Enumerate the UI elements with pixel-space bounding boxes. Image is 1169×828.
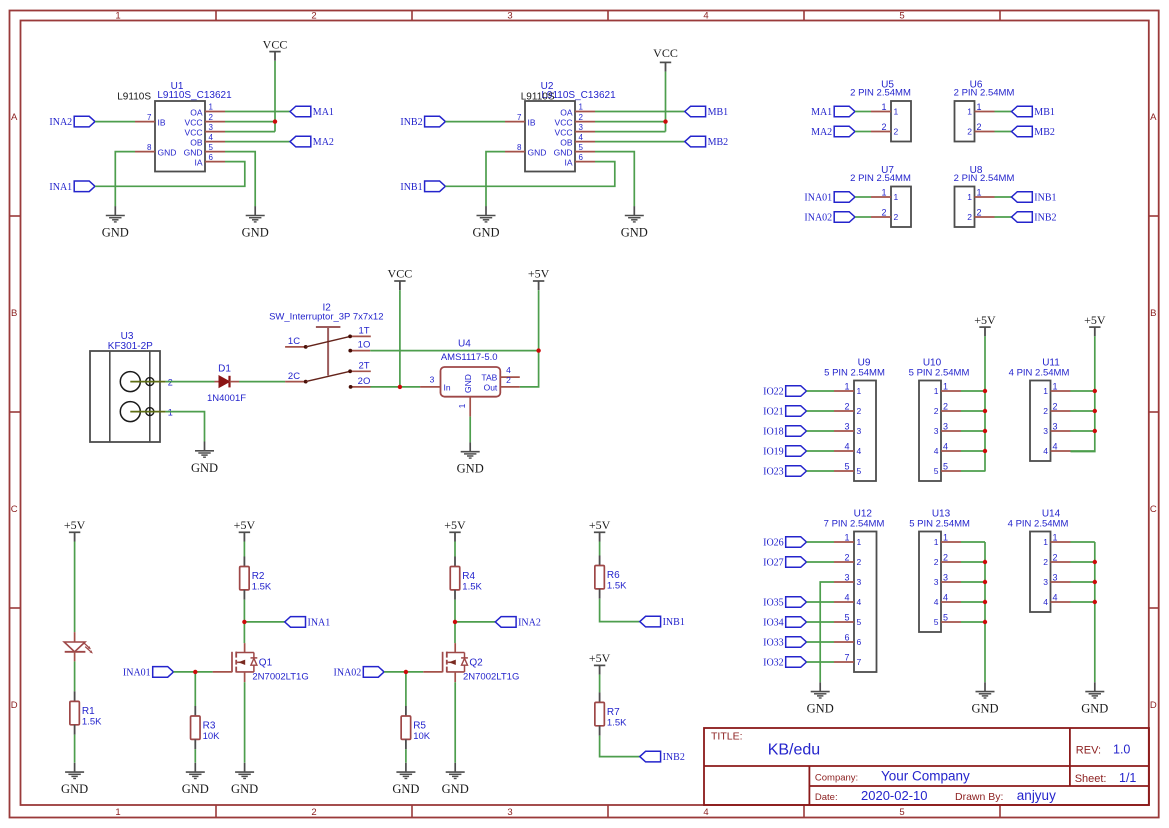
svg-text:2020-02-10: 2020-02-10 — [861, 788, 928, 803]
U12 pin 5 — [834, 613, 862, 628]
wire U2 pin5 to ground — [595, 152, 634, 207]
svg-text:GND: GND — [61, 782, 88, 796]
svg-text:GND: GND — [457, 462, 484, 476]
svg-text:2: 2 — [977, 208, 982, 218]
svg-text:MB1: MB1 — [708, 107, 729, 118]
regulator U4 labels — [441, 339, 498, 364]
svg-text:INA01: INA01 — [123, 667, 151, 678]
svg-text:5: 5 — [934, 617, 939, 627]
svg-text:OA: OA — [190, 108, 203, 118]
wire R2 to Q1 drain — [243, 600, 245, 643]
svg-text:2: 2 — [844, 553, 849, 563]
svg-text:anjyuy: anjyuy — [1017, 788, 1056, 803]
svg-text:Drawn By:: Drawn By: — [955, 791, 1003, 803]
wire U1 pin4 OB to MA2 — [225, 141, 290, 143]
svg-text:7: 7 — [844, 653, 849, 663]
svg-text:8: 8 — [147, 143, 152, 152]
power flag +5V middle — [528, 267, 550, 291]
svg-text:VCC: VCC — [263, 37, 288, 51]
svg-text:1: 1 — [209, 103, 214, 112]
svg-text:3: 3 — [507, 807, 512, 818]
junction U14 bus — [1093, 560, 1097, 564]
wire IO27 to U12 — [807, 561, 835, 563]
svg-text:INB2: INB2 — [663, 752, 685, 763]
svg-text:3: 3 — [579, 123, 584, 132]
U9 pin 4 — [834, 442, 862, 457]
junction VCC/2O — [398, 385, 402, 389]
net flag INA2 — [49, 116, 95, 128]
U8 pin 2 — [967, 208, 994, 223]
net flag INA01 — [123, 667, 174, 679]
junction VCC/U1 — [273, 119, 277, 123]
svg-text:VCC: VCC — [388, 267, 413, 281]
frame column numbers — [115, 11, 904, 819]
net flag MB1 — [685, 106, 728, 118]
net flag IO18 — [763, 426, 806, 438]
wire 2O to U4 In — [371, 386, 421, 388]
switch I2 contact 1T — [348, 325, 371, 338]
svg-text:2: 2 — [943, 402, 948, 412]
wire U8 to INB1 — [995, 196, 1012, 198]
svg-text:MB2: MB2 — [1034, 127, 1055, 138]
net flag INA2 — [495, 617, 541, 629]
wire U1 pin2 to VCC — [225, 121, 275, 123]
U1 pin 7 IB — [135, 113, 166, 128]
svg-text:1: 1 — [857, 537, 862, 547]
svg-text:3: 3 — [934, 577, 939, 587]
svg-text:2 PIN 2.54MM: 2 PIN 2.54MM — [954, 87, 1015, 98]
terminal block U3 labels — [108, 331, 153, 352]
svg-text:In: In — [444, 382, 451, 392]
svg-text:1: 1 — [881, 188, 886, 198]
svg-text:2: 2 — [967, 212, 972, 222]
connector U9 body — [854, 381, 876, 482]
svg-text:Your Company: Your Company — [881, 768, 970, 783]
wire U10 pin to +5V — [961, 430, 985, 432]
svg-text:1: 1 — [934, 386, 939, 396]
U2 pin 4 OB — [560, 133, 595, 148]
svg-text:3: 3 — [1043, 577, 1048, 587]
svg-text:10K: 10K — [203, 731, 221, 742]
resistor R3 — [191, 706, 221, 749]
wire +5V to R6 — [599, 542, 601, 556]
svg-text:3: 3 — [1043, 426, 1048, 436]
svg-text:GND: GND — [971, 702, 998, 716]
junction U13 bus — [983, 600, 987, 604]
svg-text:GND: GND — [807, 702, 834, 716]
svg-text:3: 3 — [943, 573, 948, 583]
wire U3 pin2 to D1 — [166, 381, 215, 383]
power flag +5V LED column — [64, 518, 86, 542]
svg-text:B: B — [11, 308, 17, 319]
wire U13 ground bus — [984, 542, 986, 682]
U12 pin 6 — [834, 633, 862, 648]
svg-text:1: 1 — [1043, 386, 1048, 396]
net flag IO33 — [763, 637, 806, 649]
svg-text:5: 5 — [579, 143, 584, 152]
svg-text:U4: U4 — [458, 339, 471, 350]
connector U11 body — [1030, 381, 1051, 462]
svg-text:R1: R1 — [82, 706, 95, 717]
svg-text:2 PIN 2.54MM: 2 PIN 2.54MM — [954, 173, 1015, 184]
wire U8 to INB2 — [995, 216, 1012, 218]
svg-text:3: 3 — [857, 577, 862, 587]
svg-text:5: 5 — [943, 613, 948, 623]
svg-text:IO23: IO23 — [763, 467, 784, 478]
switch I2 pole 2 lever — [306, 371, 350, 381]
U1 pin 5 GND — [184, 143, 225, 158]
svg-text:OB: OB — [560, 138, 573, 148]
resistor R2 — [240, 557, 272, 600]
svg-text:3: 3 — [1053, 573, 1058, 583]
svg-text:1.5K: 1.5K — [252, 582, 272, 593]
connector U10 body — [919, 381, 941, 482]
net flag IO21 — [763, 406, 806, 418]
svg-text:2N7002LT1G: 2N7002LT1G — [463, 671, 519, 682]
svg-text:GND: GND — [158, 148, 177, 158]
svg-text:4: 4 — [934, 597, 939, 607]
U9 pin 5 — [834, 462, 862, 477]
wire to INA1 — [244, 621, 284, 623]
wire U2 pin3 to VCC — [595, 131, 666, 133]
U2 pin 1 OA — [560, 103, 595, 118]
switch I2 actuator bar — [316, 327, 341, 375]
svg-text:2: 2 — [857, 557, 862, 567]
U12 pin 4 — [834, 593, 862, 608]
svg-text:1: 1 — [967, 107, 972, 117]
svg-text:2: 2 — [894, 127, 899, 137]
net flag IO32 — [763, 657, 806, 669]
junction INA02 — [404, 670, 408, 674]
junction U10/+5V — [983, 429, 987, 433]
svg-text:4: 4 — [857, 446, 862, 456]
svg-text:GND: GND — [191, 461, 218, 475]
U11 pin 1 — [1043, 382, 1070, 397]
svg-text:8: 8 — [517, 143, 522, 152]
svg-text:4: 4 — [844, 442, 849, 452]
net flag MA1 — [811, 106, 855, 118]
svg-text:2: 2 — [934, 557, 939, 567]
svg-text:5: 5 — [857, 466, 862, 476]
svg-text:1: 1 — [1043, 537, 1048, 547]
svg-text:4: 4 — [934, 446, 939, 456]
svg-text:OB: OB — [190, 138, 203, 148]
svg-text:INA1: INA1 — [49, 182, 72, 193]
wire U14 pin to ground bus — [1071, 561, 1095, 563]
U6 pin 1 — [967, 102, 994, 117]
svg-text:2: 2 — [934, 406, 939, 416]
svg-text:L9110S_C13621: L9110S_C13621 — [157, 90, 232, 101]
resistor R7 — [595, 692, 627, 735]
svg-text:Q1: Q1 — [259, 657, 273, 668]
svg-text:6: 6 — [209, 153, 214, 162]
svg-text:INA1: INA1 — [308, 617, 331, 628]
svg-text:1: 1 — [977, 102, 982, 112]
svg-text:1.5K: 1.5K — [607, 581, 627, 592]
U6 pin 2 — [967, 122, 994, 137]
svg-text:R5: R5 — [413, 721, 426, 732]
svg-text:1: 1 — [115, 807, 120, 818]
svg-text:1O: 1O — [358, 340, 371, 351]
sheet text — [1075, 771, 1137, 785]
power flag VCC above U2 — [653, 46, 678, 72]
svg-text:VCC: VCC — [555, 128, 573, 138]
svg-text:4: 4 — [703, 807, 708, 818]
svg-text:L9110S: L9110S — [117, 92, 151, 103]
svg-text:A: A — [11, 112, 18, 123]
LED diode — [64, 632, 93, 661]
power flag +5V R7 — [589, 651, 611, 675]
wire Q1 source to ground — [244, 682, 246, 763]
junction U14 bus — [1093, 600, 1097, 604]
svg-text:1: 1 — [579, 103, 584, 112]
svg-text:2: 2 — [209, 113, 214, 122]
wire R5 to ground — [405, 749, 407, 763]
svg-text:TAB: TAB — [481, 373, 497, 383]
svg-text:IO21: IO21 — [763, 407, 784, 418]
svg-text:AMS1117-5.0: AMS1117-5.0 — [441, 352, 498, 363]
svg-text:1: 1 — [857, 386, 862, 396]
wire 1O to +5V — [370, 350, 538, 352]
wire VCC to 2O net — [399, 290, 401, 387]
svg-text:GND: GND — [1081, 702, 1108, 716]
diode D1 1N4001F — [207, 363, 246, 404]
connector U14 labels — [1008, 509, 1069, 530]
svg-text:TITLE:: TITLE: — [711, 731, 743, 743]
svg-text:GND: GND — [102, 226, 129, 240]
svg-text:2: 2 — [311, 11, 316, 22]
wire INA01 to R3 — [194, 672, 196, 706]
svg-text:5: 5 — [899, 11, 904, 22]
U12 pin 1 — [834, 533, 862, 548]
svg-text:D1: D1 — [218, 363, 231, 374]
svg-text:INB2: INB2 — [1034, 213, 1056, 224]
svg-text:MA1: MA1 — [313, 107, 334, 118]
junction U11/+5V — [1093, 389, 1097, 393]
svg-text:GND: GND — [442, 782, 469, 796]
wire U11 pin to +5V — [1071, 430, 1095, 432]
wire U1 pin8 to ground — [115, 152, 135, 207]
svg-text:Q2: Q2 — [469, 657, 483, 668]
svg-text:5: 5 — [934, 466, 939, 476]
wire IO35 to U12 — [807, 601, 835, 603]
net flag IO26 — [763, 537, 806, 549]
svg-text:5: 5 — [857, 617, 862, 627]
U14 pin 2 — [1043, 553, 1070, 568]
U3 pin 2 — [130, 377, 173, 387]
U3 pin 1 — [130, 407, 173, 417]
svg-text:1: 1 — [457, 403, 467, 408]
svg-text:INA02: INA02 — [334, 667, 362, 678]
U4 pin 3 In — [420, 375, 451, 393]
svg-text:4 PIN 2.54MM: 4 PIN 2.54MM — [1008, 518, 1069, 529]
junction +5V/1O — [536, 348, 540, 352]
connector U6 labels — [954, 80, 1015, 99]
net flag INB1 — [1012, 192, 1057, 204]
svg-text:3: 3 — [844, 422, 849, 432]
wire U10 pin to +5V — [961, 450, 985, 452]
net flag INB1 — [640, 616, 685, 628]
wire INA1 to U1 pin6 — [95, 162, 245, 187]
svg-text:7 PIN 2.54MM: 7 PIN 2.54MM — [824, 518, 885, 529]
wire R7 to INB2 — [600, 736, 640, 757]
connector U12 labels — [824, 509, 885, 530]
IC U2 labels — [521, 81, 616, 103]
U1 pin 2 VCC — [185, 113, 225, 128]
svg-text:+5V: +5V — [589, 518, 611, 532]
net flag MB1 — [1012, 106, 1055, 118]
svg-text:GND: GND — [472, 226, 499, 240]
ground below U12 — [807, 682, 834, 715]
svg-text:VCC: VCC — [555, 118, 573, 128]
connector U8 labels — [954, 165, 1015, 184]
svg-text:INA2: INA2 — [518, 617, 541, 628]
svg-text:C: C — [1150, 504, 1157, 515]
junction VCC/U2 — [663, 119, 667, 123]
wire R4 to Q2 drain — [454, 600, 456, 643]
resistor R4 — [450, 557, 482, 600]
wire +5V to LED — [74, 542, 76, 633]
U11 pin 3 — [1043, 422, 1070, 437]
svg-text:2: 2 — [1043, 557, 1048, 567]
net flag INA01 — [804, 192, 855, 204]
connector U7 body — [891, 187, 911, 228]
wire INA01 to U7 — [855, 196, 871, 198]
junction INA2 — [453, 620, 457, 624]
wire +5V bus U10 — [984, 336, 986, 471]
U2 pin 6 IA — [564, 153, 595, 168]
svg-text:5: 5 — [943, 462, 948, 472]
connector U14 body — [1030, 532, 1051, 613]
transistor Q1 2N7002LT1G — [213, 643, 309, 682]
net flag IO34 — [763, 617, 806, 629]
wire VCC vertical to U1 pins 2,3 — [274, 61, 276, 132]
U5 pin 1 — [871, 102, 899, 117]
switch I2 labels — [269, 303, 383, 323]
svg-text:Company:: Company: — [815, 772, 858, 783]
wire U13 pin to ground bus — [961, 541, 985, 543]
U13 pin 3 — [934, 573, 961, 588]
junction U10/+5V — [983, 389, 987, 393]
wire INA02 to Q2 gate — [384, 671, 423, 673]
svg-text:MA1: MA1 — [811, 107, 832, 118]
wire +5V bus U11 — [1071, 336, 1095, 451]
net flag INB2 — [400, 116, 445, 128]
wire U12 pin3 to ground — [820, 582, 834, 682]
svg-text:R4: R4 — [462, 571, 475, 582]
wire MA1 to U5 — [855, 111, 871, 113]
svg-text:1: 1 — [967, 192, 972, 202]
junction U10/+5V — [983, 449, 987, 453]
IC U2 L9110S body — [525, 101, 575, 172]
svg-text:INB1: INB1 — [663, 617, 685, 628]
svg-text:3: 3 — [430, 375, 435, 385]
U12 pin 7 — [834, 653, 862, 668]
wire VCC vertical to U2 pins 2,3 — [665, 72, 667, 132]
U14 pin 3 — [1043, 573, 1070, 588]
U8 pin 1 — [967, 188, 994, 203]
svg-text:+5V: +5V — [444, 518, 466, 532]
wire U14 ground bus — [1094, 542, 1096, 682]
U2 pin 3 VCC — [555, 123, 595, 138]
U4 pin 4 TAB — [481, 365, 519, 382]
U12 pin 2 — [834, 553, 862, 568]
svg-text:2: 2 — [311, 807, 316, 818]
svg-text:MB1: MB1 — [1034, 107, 1055, 118]
svg-text:7: 7 — [147, 113, 152, 122]
U5 pin 2 — [871, 122, 899, 137]
ground below R5 — [392, 763, 419, 796]
svg-text:INA02: INA02 — [804, 213, 832, 224]
junction U11/+5V — [1093, 429, 1097, 433]
U13 pin 1 — [934, 533, 961, 548]
svg-text:6: 6 — [844, 633, 849, 643]
svg-text:4: 4 — [703, 11, 708, 22]
svg-text:3: 3 — [857, 426, 862, 436]
U1 pin 3 VCC — [185, 123, 225, 138]
svg-text:MA2: MA2 — [811, 127, 832, 138]
wire R6 to INB1 — [600, 599, 640, 622]
svg-text:2: 2 — [943, 553, 948, 563]
wire U11 pin4 to +5V — [1071, 450, 1095, 452]
svg-text:GND: GND — [231, 782, 258, 796]
ground below U1 right — [242, 206, 269, 239]
svg-text:3: 3 — [943, 422, 948, 432]
svg-text:2 PIN 2.54MM: 2 PIN 2.54MM — [850, 173, 911, 184]
net flag IO35 — [763, 597, 806, 609]
wire U13 pin to ground bus — [961, 601, 985, 603]
svg-text:Out: Out — [484, 382, 498, 392]
connector U11 labels — [1009, 358, 1070, 379]
svg-text:5 PIN 2.54MM: 5 PIN 2.54MM — [909, 518, 970, 529]
net flag INB2 — [1012, 212, 1057, 224]
svg-text:INB1: INB1 — [400, 182, 422, 193]
connector U7 labels — [850, 165, 911, 184]
net flag MA2 — [290, 136, 334, 148]
connector U12 body — [854, 532, 877, 673]
svg-text:1T: 1T — [358, 325, 369, 336]
svg-text:5 PIN 2.54MM: 5 PIN 2.54MM — [909, 367, 970, 378]
switch I2 contact 2O — [349, 376, 371, 389]
svg-text:IO26: IO26 — [763, 538, 784, 549]
svg-text:GND: GND — [184, 148, 203, 158]
svg-text:1: 1 — [844, 533, 849, 543]
svg-text:L9110S: L9110S — [521, 92, 555, 103]
switch I2 contact 1C — [285, 336, 308, 349]
svg-text:+5V: +5V — [1084, 313, 1106, 327]
wire U6 to MB2 — [995, 131, 1012, 133]
connector U13 labels — [909, 509, 970, 530]
wire +5V to R4 — [454, 542, 456, 557]
U11 pin 2 — [1043, 402, 1070, 417]
svg-text:2C: 2C — [288, 371, 300, 382]
svg-text:IO22: IO22 — [763, 387, 784, 398]
connector U8 body — [955, 187, 975, 228]
svg-text:GND: GND — [182, 782, 209, 796]
svg-text:Date:: Date: — [815, 792, 838, 803]
U10 pin 3 — [934, 422, 961, 437]
svg-text:4: 4 — [209, 133, 214, 142]
U9 pin 2 — [834, 402, 862, 417]
wire +5V to U4 Out — [520, 290, 539, 387]
wire U10 pin to +5V — [961, 390, 985, 392]
svg-text:R3: R3 — [203, 721, 216, 732]
switch I2 contact 1O — [348, 340, 370, 353]
title text — [711, 731, 820, 759]
svg-text:+5V: +5V — [528, 267, 550, 281]
net flag INA1 — [285, 617, 331, 629]
svg-text:1: 1 — [1053, 382, 1058, 392]
